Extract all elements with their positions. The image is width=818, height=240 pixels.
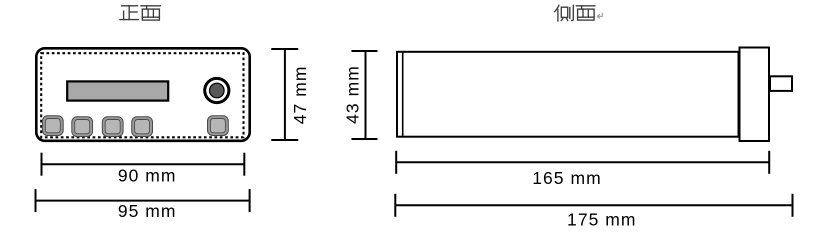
dimension 175 mm — [395, 194, 792, 217]
dimension 90 mm — [42, 153, 245, 176]
paragraph return mark — [597, 13, 602, 19]
svg-text:43 mm: 43 mm — [343, 65, 363, 124]
svg-text:90 mm: 90 mm — [118, 166, 177, 186]
side view body — [397, 52, 739, 137]
dimension 47 mm — [271, 49, 298, 140]
title 正面 (front view label) — [120, 6, 160, 20]
svg-text:95 mm: 95 mm — [118, 201, 177, 221]
dimension 43 mm — [352, 51, 378, 139]
button 2 — [72, 117, 93, 137]
power knob ring — [205, 78, 229, 102]
title 侧面 (side view label) — [555, 5, 595, 21]
svg-text:165 mm: 165 mm — [532, 168, 602, 188]
power knob center — [210, 83, 225, 98]
dimension 165 mm — [396, 151, 769, 174]
display window — [67, 81, 168, 100]
svg-text:175 mm: 175 mm — [567, 210, 637, 230]
side view rear cap — [740, 48, 770, 142]
side view connector — [770, 76, 792, 91]
dimension 95 mm — [36, 189, 250, 212]
front view outer case — [36, 48, 249, 141]
button 1 — [42, 116, 63, 136]
button 3 — [102, 117, 123, 137]
button 5 — [208, 116, 229, 136]
front view dotted inset border — [41, 53, 243, 137]
button 4 — [132, 117, 153, 137]
side view front bezel line — [402, 52, 404, 137]
svg-text:47 mm: 47 mm — [290, 66, 310, 125]
